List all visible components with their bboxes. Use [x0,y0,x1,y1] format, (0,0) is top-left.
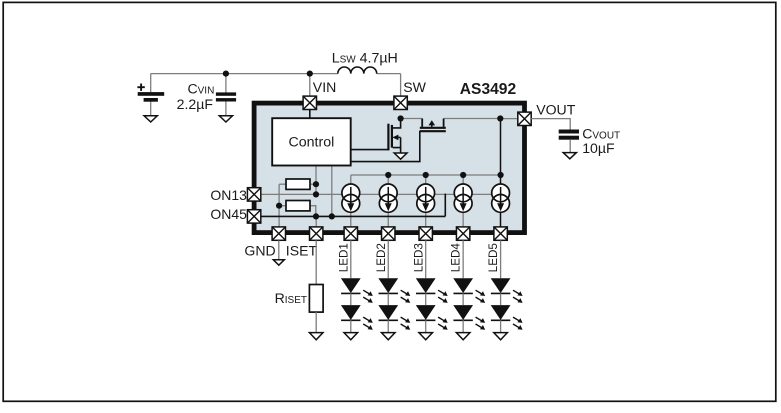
battery V1 plates [138,92,165,102]
wire R1 left stub [279,183,286,185]
svg-text:ON45: ON45 [210,206,247,222]
pin LED1 [344,227,357,240]
svg-text:GND: GND [244,242,275,258]
wire CVOUT to ground [569,140,571,153]
junction dot R1-control [313,181,319,187]
svg-text:ISET: ISET [286,242,318,258]
ground below GND pin [273,260,284,265]
wire ON45 line [261,215,446,217]
svg-text:2.2µF: 2.2µF [177,96,214,112]
wire VIN drop [309,74,311,97]
junction dot ON45-ISET [313,213,319,219]
pin LED3 [419,227,432,240]
wire Control to PMOS gate [351,131,420,162]
pin LED5 [494,227,507,240]
junction dot SW internal [398,115,404,121]
pin ON45 [247,210,260,223]
wire SW node to PMOS drain [401,118,423,120]
junction dot CVIN tap [223,71,229,77]
pin ON13 [247,188,260,201]
ground below battery [144,116,157,122]
junction dot ON13 line [313,191,319,197]
wire CVIN to ground [225,101,227,116]
wire Control drop to ON13 [315,166,317,195]
current source I1 [342,184,360,212]
wire CVIN top stub [225,74,227,93]
junction dot VOUT internal [497,115,503,121]
transistor Q1 NMOS switch [388,119,400,154]
wire battery top stub [150,74,152,93]
wire PMOS source to VOUT node [444,118,501,120]
capacitor CVIN plates [216,92,236,101]
resistor R2 ON45 pulldown [286,201,310,211]
capacitor CVOUT plates [559,130,579,140]
svg-text:LED4: LED4 [450,243,463,273]
ground below CVOUT [563,153,576,159]
svg-text:SW: SW [403,79,426,95]
wire internal GND line [278,184,280,227]
wire RISET to return arrow [315,312,317,333]
resistor RISET [309,285,323,313]
pin VIN [303,96,316,109]
ground below Q1 [394,153,407,159]
wire GND pin to ground [278,240,280,259]
LED pair string 3 [416,240,448,339]
svg-text:Control: Control [289,135,335,151]
wire ISET pin to ON45 line [315,216,317,227]
wire Control drop to ON45 [331,166,333,217]
wire SW drop [400,74,402,97]
svg-text:VIN: VIN [313,79,337,95]
junction dot ON45-control [329,213,335,219]
return arrow below RISET [309,333,323,340]
svg-text:LED5: LED5 [487,243,500,273]
svg-text:VOUT: VOUT [536,101,576,117]
LED pair string 5 [491,240,523,339]
LED pair string 2 [378,240,410,339]
wire battery to inductor [151,73,338,75]
wire VOUT drop through source I5 to LED5 pin [500,119,502,228]
current source I2 [379,184,397,212]
wire ON13 bias line [261,193,510,195]
wire source top rail [351,174,501,176]
pin VOUT [518,112,531,125]
wire source bottom stubs [351,211,463,227]
wire VOUT node to VOUT pin [500,118,518,120]
LED pair string 1 [341,240,373,339]
inductor LSW [338,67,377,74]
junction dots source rail [385,172,504,178]
wire R2 left stub [279,205,286,207]
svg-text:ON13: ON13 [210,187,247,203]
transistor Q2 PMOS [420,119,446,132]
current source I5 [492,184,510,212]
wire R1 right stub [310,183,316,185]
wire inductor to SW corner [377,73,401,75]
svg-text:AS3492: AS3492 [460,81,517,98]
ground below CVIN [219,116,232,122]
wire R2 right elbow [310,206,316,217]
pin GND [272,227,285,240]
svg-text:LED2: LED2 [375,243,388,272]
battery V1 plus sign [137,84,144,91]
IC AS3492 body [254,103,524,233]
resistor R1 ON13 pulldown [286,179,310,189]
wire Control to NMOS gate [351,149,389,151]
pin SW [394,96,407,109]
current source I4 [454,184,472,212]
svg-text:LED3: LED3 [412,243,425,272]
wire battery to ground [150,102,152,116]
junction dot R2-gnd [276,203,282,209]
svg-text:10µF: 10µF [582,140,615,156]
wire VIN pin to Control [309,110,311,119]
pin LED4 [456,227,469,240]
block Control U1 [272,118,351,165]
LED pair string 4 [453,240,485,339]
wire VOUT pin to CVOUT [531,119,570,130]
wire source top stubs [351,175,463,185]
current source I3 [417,184,435,212]
svg-text:LED1: LED1 [337,243,350,272]
wire ISET pin to RISET [315,240,317,284]
wire ON45 step to sources 4-5 [444,194,446,217]
pin LED2 [382,227,395,240]
pin ISET [310,227,323,240]
junction dot VIN tap [307,71,313,77]
